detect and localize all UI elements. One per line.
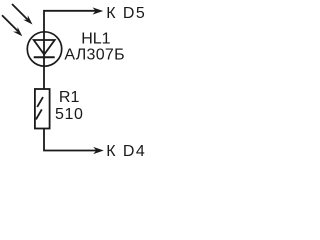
resistor power slash lower bbox=[36, 109, 42, 119]
arrowhead to D5 bbox=[93, 7, 104, 14]
svg-text:R1: R1 bbox=[59, 89, 80, 106]
arrowhead to D4 bbox=[93, 147, 104, 154]
svg-text:К D5: К D5 bbox=[106, 5, 146, 22]
light arrow 1 head bbox=[23, 15, 32, 24]
wire bottom: vertical from resistor down, corner, horizontal toward D4 bbox=[44, 129, 97, 151]
light arrow 2 shaft bbox=[2, 15, 18, 31]
wire LED to resistor bbox=[43, 66, 45, 89]
LED triangle (anode) bbox=[34, 40, 55, 55]
LED HL1 circle bbox=[27, 32, 61, 66]
svg-text:HL1: HL1 bbox=[81, 31, 110, 48]
wire through LED circle bbox=[43, 32, 45, 67]
resistor power slash upper bbox=[37, 97, 43, 107]
LED cathode bar bbox=[34, 56, 55, 58]
resistor R1 body bbox=[35, 89, 50, 129]
svg-text:К D4: К D4 bbox=[106, 143, 146, 160]
svg-text:АЛ307Б: АЛ307Б bbox=[64, 47, 125, 64]
wire top: vertical from LED up, corner, horizontal toward D5 bbox=[44, 11, 96, 32]
svg-text:510: 510 bbox=[55, 106, 84, 123]
light arrow 2 head bbox=[13, 27, 22, 36]
light arrow 1 shaft bbox=[12, 4, 28, 20]
